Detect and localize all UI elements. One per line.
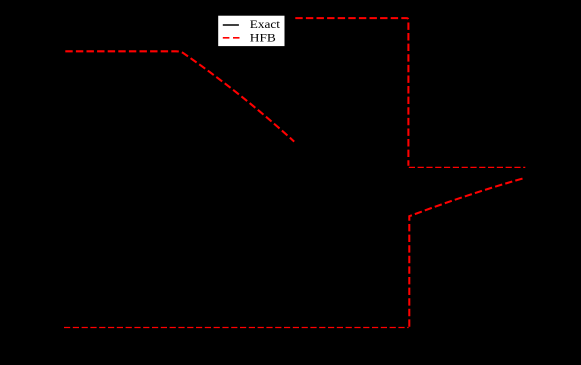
thin dashed reference line, middle right (409, 166, 526, 168)
HFB curve: upper-left branch (flat then descending) (65, 51, 294, 141)
thin dashed reference line, bottom (64, 327, 409, 329)
svg-text:HFB: HFB (250, 32, 276, 44)
HFB curve: top branch with vertical drop at x=408 (295, 18, 408, 166)
legend box (218, 16, 284, 46)
svg-text:Exact: Exact (250, 19, 281, 31)
legend sample line: HFB (red dashed) (223, 37, 240, 39)
legend sample line: Exact (black solid) (223, 24, 239, 26)
HFB curve: lower branch (vertical rise then concave curve to right) (409, 178, 524, 327)
